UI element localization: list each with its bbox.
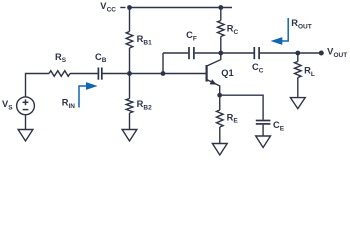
ground CE — [256, 136, 271, 148]
wire RS to CB — [70, 73, 98, 75]
svg-text:B2: B2 — [143, 104, 152, 111]
wire RB2 top — [129, 74, 131, 99]
svg-text:CC: CC — [107, 7, 117, 14]
node emitter — [217, 93, 222, 98]
wire CC to VOUT — [260, 52, 319, 54]
ground VS — [18, 130, 33, 142]
ground RB2 — [122, 130, 137, 142]
node base-CF — [161, 71, 166, 76]
svg-text:IN: IN — [69, 103, 76, 110]
resistor RB2 — [126, 99, 133, 114]
wire VS top — [26, 74, 50, 97]
node VCC-RC — [218, 5, 223, 10]
wire emitter to RE — [219, 95, 221, 110]
svg-text:S: S — [8, 104, 13, 111]
svg-text:E: E — [233, 118, 238, 125]
svg-text:E: E — [280, 126, 285, 133]
svg-text:L: L — [311, 71, 315, 78]
ground RE — [212, 144, 227, 156]
resistor RL — [295, 62, 302, 78]
wire RL bottom — [297, 78, 299, 98]
wire RC top — [220, 8, 222, 21]
wire collector node to CC — [221, 52, 254, 54]
transistor Q1 base bar — [206, 65, 208, 82]
wire RC bottom — [220, 37, 222, 54]
node VOUT terminal — [319, 51, 324, 56]
wire CE bottom — [262, 125, 264, 136]
resistor RS — [49, 71, 70, 77]
wire base line — [102, 73, 206, 75]
svg-text:C: C — [259, 67, 264, 74]
node RL — [295, 51, 300, 56]
capacitor CE — [256, 121, 271, 124]
svg-text:B1: B1 — [143, 40, 152, 47]
wire RB1 top — [129, 8, 131, 32]
svg-text:OUT: OUT — [298, 23, 312, 30]
resistor RE — [217, 110, 224, 127]
transistor Q1 emitter arrow — [210, 79, 217, 84]
VS plus — [23, 99, 29, 105]
wire VS bottom — [25, 115, 27, 130]
wire emitter to CE — [220, 95, 263, 120]
svg-text:S: S — [62, 57, 67, 64]
capacitor CB — [98, 68, 101, 80]
svg-text:OUT: OUT — [334, 52, 348, 59]
source VS — [17, 97, 35, 115]
node collector — [218, 51, 223, 56]
node base-RB — [127, 71, 132, 76]
svg-text:Q1: Q1 — [221, 68, 233, 78]
wire CF to collector node — [195, 52, 221, 54]
arrow RIN — [79, 86, 87, 108]
resistor RC — [218, 21, 225, 37]
wire CF branch horizontal — [163, 52, 188, 54]
node VCC-RB1 — [127, 5, 132, 10]
VS minus — [23, 109, 29, 111]
svg-text:B: B — [102, 57, 107, 64]
transistor Q1 emitter lead — [207, 80, 219, 95]
transistor Q1 collector lead — [207, 53, 221, 66]
wire RE bottom — [219, 127, 221, 144]
wire VCC stub — [120, 7, 125, 9]
wire RB2 bottom — [129, 113, 131, 130]
arrow ROUT — [281, 18, 288, 41]
wire VCC rail — [130, 7, 233, 9]
svg-text:C: C — [234, 29, 239, 36]
ground RL — [290, 98, 305, 109]
wire CF branch vertical — [162, 53, 164, 74]
wire RL top — [297, 53, 299, 62]
capacitor CC — [254, 47, 259, 59]
resistor RB1 — [126, 32, 133, 49]
wire RB1 bottom — [129, 48, 131, 74]
capacitor CF — [189, 47, 194, 59]
svg-text:F: F — [193, 35, 197, 42]
